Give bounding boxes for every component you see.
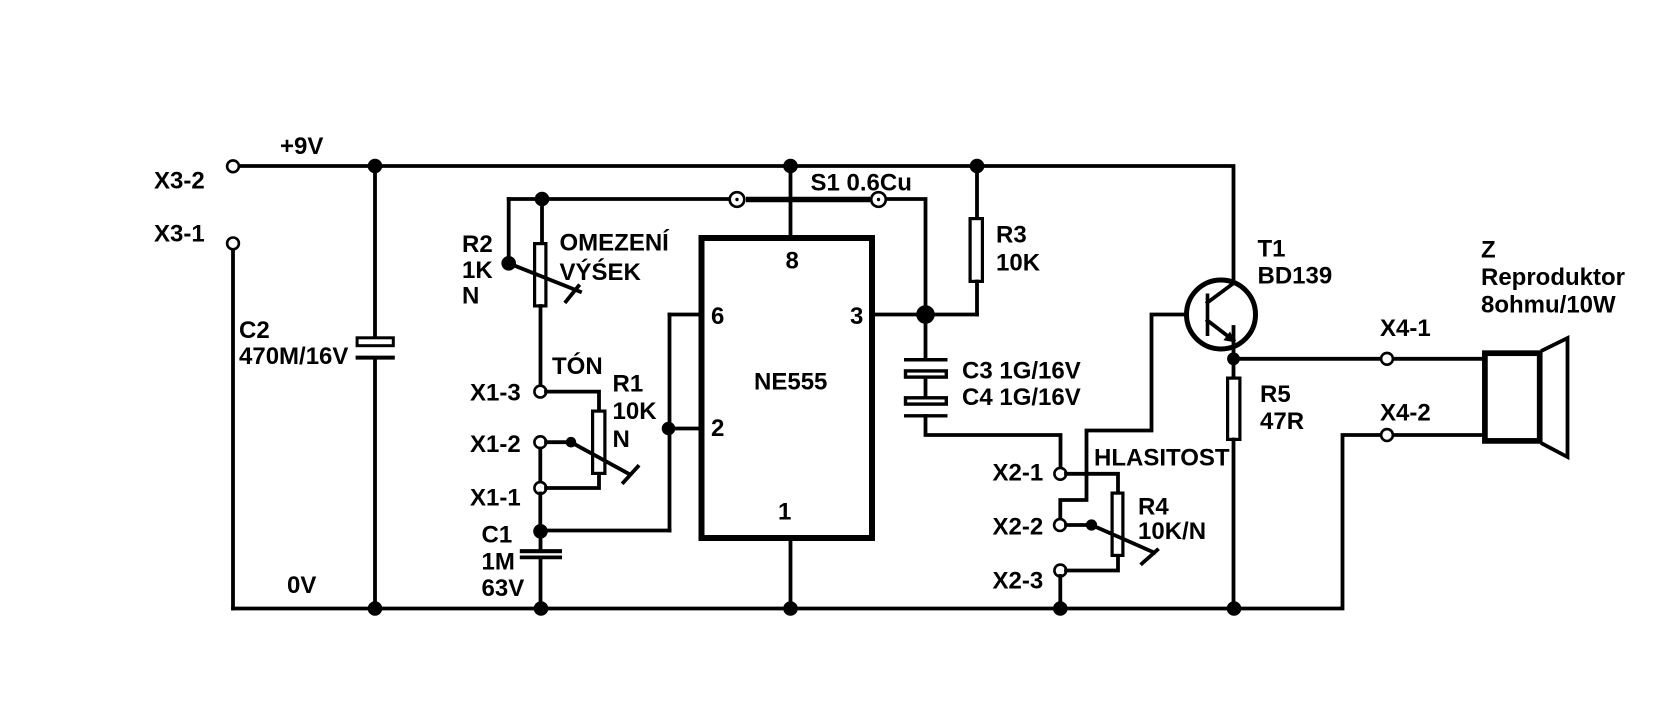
wire X1-3 to R1 top: [546, 392, 599, 411]
svg-text:1: 1: [778, 498, 791, 525]
svg-text:47R: 47R: [1260, 408, 1304, 435]
svg-text:C1: C1: [482, 521, 513, 548]
switch S1: [730, 169, 912, 207]
svg-text:R2: R2: [462, 231, 493, 258]
svg-text:N: N: [613, 426, 630, 453]
speaker Z: [1481, 236, 1625, 457]
svg-text:BD139: BD139: [1258, 262, 1333, 289]
wire pin3: [872, 313, 977, 317]
resistor R3: [970, 219, 1041, 282]
svg-text:X4-2: X4-2: [1380, 399, 1431, 426]
wire R5 bottom: [1232, 440, 1236, 609]
resistor R1: [593, 370, 658, 473]
svg-text:C4 1G/16V: C4 1G/16V: [962, 384, 1081, 411]
junction R1 wiper: [566, 437, 577, 448]
wire emitter vertical: [1232, 327, 1236, 378]
svg-text:X1-2: X1-2: [470, 431, 521, 458]
svg-text:X3-2: X3-2: [154, 167, 205, 194]
svg-text:0V: 0V: [287, 572, 316, 599]
svg-text:X2-2: X2-2: [993, 513, 1044, 540]
wire C3-C4 link: [924, 378, 928, 398]
node OMEZENI VYSEK label: [560, 228, 671, 285]
wire R2 wiper drop: [507, 199, 511, 263]
svg-text:C2: C2: [239, 317, 270, 344]
svg-text:X3-1: X3-1: [154, 220, 205, 247]
svg-text:470M/16V: 470M/16V: [239, 343, 348, 370]
svg-text:NE555: NE555: [754, 368, 827, 395]
svg-text:R1: R1: [613, 370, 644, 397]
junction C2 top rail: [368, 159, 383, 174]
wire R1 wiper tick: [623, 467, 637, 483]
svg-text:10K: 10K: [613, 398, 658, 425]
wire C4 out to X2-1: [926, 416, 1061, 468]
svg-text:HLASITOST: HLASITOST: [1094, 444, 1230, 471]
resistor R2: [462, 231, 546, 309]
junction emitter: [1227, 352, 1240, 365]
wire pin2: [670, 427, 701, 431]
wire X1-2 to wiper: [546, 440, 571, 444]
svg-text:Reproduktor: Reproduktor: [1481, 264, 1625, 291]
svg-text:10K: 10K: [996, 249, 1041, 276]
junction pin2: [662, 422, 676, 436]
wire R1 wiper arrow: [571, 442, 628, 473]
wire +9V top rail: [240, 166, 1234, 283]
junction C1 ground: [534, 601, 549, 616]
junction R2 wiper: [501, 256, 516, 271]
wire pin1 stem: [789, 538, 793, 609]
svg-text:VÝŚEK: VÝŚEK: [560, 258, 642, 286]
svg-text:Z: Z: [1481, 236, 1496, 263]
svg-text:63V: 63V: [482, 575, 525, 602]
junction pin8 rail: [783, 159, 798, 174]
wire base T1 to X2-2: [1060, 315, 1206, 520]
transistor Q1 T1 BD139: [1187, 235, 1333, 349]
capacitor C1: [482, 521, 563, 602]
junction X2-3 ground: [1053, 601, 1068, 616]
terminal X2-2: [993, 513, 1066, 540]
svg-text:10K/N: 10K/N: [1138, 518, 1206, 545]
resistor R5: [1228, 378, 1304, 439]
terminal X3-2: [154, 160, 239, 194]
svg-text:X4-1: X4-1: [1380, 315, 1431, 342]
wire X2-1 to R4 top: [1066, 474, 1118, 493]
wire emitter to X4-1: [1234, 357, 1485, 361]
resistor R4: [1112, 493, 1206, 555]
wire S1 feed left: [509, 197, 730, 201]
wire X2-2 to wiper: [1066, 523, 1092, 527]
terminal X4-2: [1380, 399, 1431, 441]
wire pin8 stem: [789, 166, 793, 237]
wire S1 right to pin3 node: [887, 199, 926, 313]
wire X1-2 to X1-1: [538, 449, 542, 483]
terminal X4-1: [1380, 315, 1431, 365]
junction R2 top: [535, 192, 550, 207]
svg-text:TÓN: TÓN: [552, 352, 603, 380]
svg-text:OMEZENÍ: OMEZENÍ: [560, 228, 671, 256]
wire C1 stem top: [539, 531, 543, 549]
svg-text:R3: R3: [996, 221, 1027, 248]
svg-text:X1-3: X1-3: [470, 379, 521, 406]
wire X1-1 to R1 bottom: [546, 474, 599, 488]
svg-text:X2-1: X2-1: [993, 459, 1044, 486]
terminal X1-3: [470, 379, 546, 406]
svg-text:X2-3: X2-3: [993, 567, 1044, 594]
junction pin3 node: [916, 305, 935, 324]
wire R2 top stem: [540, 199, 544, 243]
svg-text:1K: 1K: [462, 257, 493, 284]
wire R4 wiper arrow: [1092, 525, 1155, 553]
wire R2 wiper tick: [566, 286, 579, 302]
svg-text:6: 6: [711, 303, 724, 330]
junction R3 rail: [970, 159, 985, 174]
wire R2 wiper arrow: [509, 263, 580, 291]
op-amp U1 NE555 box: [702, 238, 873, 538]
svg-text:R4: R4: [1138, 493, 1169, 520]
capacitor C2: [239, 317, 395, 370]
wire 0V rail: [233, 435, 1485, 609]
wire X1-1 down: [538, 494, 542, 532]
wire R2 bottom stem: [539, 306, 543, 385]
terminal X2-1: [993, 459, 1067, 486]
svg-text:C3 1G/16V: C3 1G/16V: [962, 357, 1081, 384]
svg-text:8: 8: [786, 247, 799, 274]
junction R5 ground: [1227, 601, 1242, 616]
svg-text:T1: T1: [1258, 235, 1286, 262]
terminal X3-1: [154, 220, 239, 249]
wire R3 top stem: [975, 166, 979, 219]
wire R4 wiper tick: [1142, 550, 1157, 564]
wire X2-3 ground stem: [1058, 576, 1062, 609]
svg-text:X1-1: X1-1: [470, 484, 521, 511]
capacitor C3: [904, 357, 1081, 384]
wire C1 bottom: [539, 559, 543, 609]
svg-text:1M: 1M: [482, 548, 515, 575]
terminal X2-3: [993, 565, 1067, 595]
wire X3-1 to 0V rail: [231, 250, 235, 609]
svg-text:2: 2: [711, 415, 724, 442]
svg-text:+9V: +9V: [280, 133, 323, 160]
wire C2 top: [373, 166, 377, 337]
svg-text:S1 0.6Cu: S1 0.6Cu: [811, 169, 912, 196]
junction pin1 ground: [783, 601, 798, 616]
junction C2 ground: [368, 601, 383, 616]
wire R3 bottom stem: [975, 282, 979, 315]
wire C1 link to pin2: [541, 529, 670, 533]
wire C2 bottom: [373, 360, 377, 609]
svg-text:3: 3: [850, 303, 863, 330]
junction R4 wiper: [1086, 519, 1097, 530]
svg-text:N: N: [462, 282, 479, 309]
terminal X1-2: [470, 431, 546, 458]
wire pin6-pin2 vertical: [668, 315, 672, 531]
wire pin6: [670, 313, 701, 317]
svg-text:R5: R5: [1260, 381, 1291, 408]
capacitor C4: [904, 384, 1081, 416]
terminal X1-1: [470, 482, 546, 511]
wire C3 stem: [924, 315, 928, 360]
wire X2-3 to R4 bottom: [1066, 556, 1118, 571]
junction C1 top: [533, 524, 548, 539]
svg-text:8ohmu/10W: 8ohmu/10W: [1481, 291, 1616, 318]
